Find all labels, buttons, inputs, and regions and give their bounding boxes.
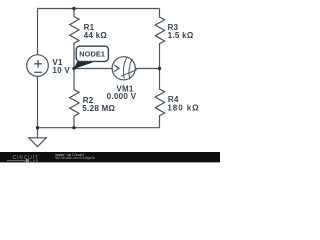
svg-text:44 kΩ: 44 kΩ	[84, 31, 108, 40]
node NODE1 junction	[72, 67, 75, 70]
junction top R1	[72, 7, 75, 10]
wire node to voltmeter	[74, 68, 112, 70]
svg-text:10 V: 10 V	[52, 66, 70, 75]
svg-text:NODE1: NODE1	[79, 50, 105, 59]
svg-text:180 kΩ: 180 kΩ	[167, 103, 199, 112]
node label NODE1 box	[76, 46, 108, 61]
voltmeter VM1	[112, 57, 135, 80]
resistor R1	[70, 9, 79, 69]
watermark logo CIRCUIT	[7, 155, 39, 163]
svg-text:5.28 MΩ: 5.28 MΩ	[82, 104, 115, 113]
svg-text:1.5 kΩ: 1.5 kΩ	[168, 31, 194, 40]
wire voltmeter to right branch	[135, 68, 159, 70]
svg-text:LAB: LAB	[30, 159, 39, 163]
resistor R4	[155, 69, 164, 128]
svg-text:http://circuitlab.com/c/e7sf3l: http://circuitlab.com/c/e7sf3lgar3m	[55, 156, 95, 160]
wire left V1 branch lower	[37, 76, 39, 127]
resistor R3	[155, 9, 164, 69]
junction right mid	[158, 67, 161, 70]
wire left V1 branch upper	[37, 9, 39, 55]
junction bottom R2	[72, 126, 75, 129]
svg-text:0.000 V: 0.000 V	[107, 92, 137, 101]
watermark logo LAB	[7, 160, 25, 162]
watermark bar	[0, 152, 220, 162]
node label NODE1 pointer	[74, 60, 94, 69]
resistor R2	[70, 69, 79, 128]
voltage source V1	[27, 55, 49, 77]
junction dots	[36, 7, 161, 130]
junction ground	[36, 126, 39, 129]
wire bottom	[38, 127, 160, 129]
ground	[29, 128, 46, 147]
wire top	[38, 8, 160, 10]
